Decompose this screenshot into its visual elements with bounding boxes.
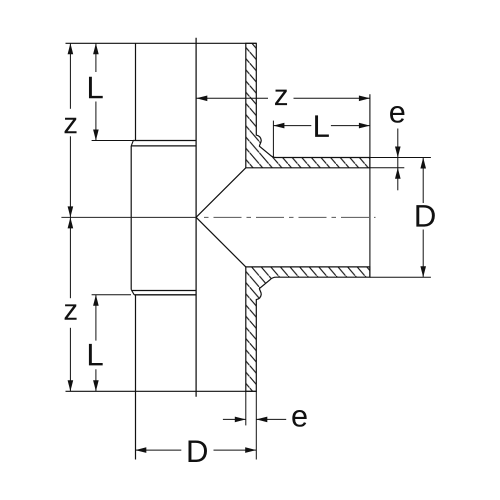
bottom socket step lower line (134, 294, 196, 296)
extension of branch outer top line (370, 157, 431, 159)
bore intersection diagonal lower (196, 217, 246, 267)
socket outer edge top-left (135, 43, 137, 140)
dimension z bottom-left (69, 217, 71, 298)
bottom e extension line inner (245, 391, 247, 425)
vertical axis line (195, 38, 197, 397)
dimension L top-left (95, 43, 97, 72)
body outer edge left (130, 146, 132, 290)
dimension D right (422, 158, 424, 204)
extension of branch outer bottom line (370, 276, 431, 278)
extension line for top L at step (92, 140, 133, 142)
dimension z top-right (196, 97, 268, 99)
centerline horizontal left solid (61, 216, 196, 218)
dimension L bottom-left (95, 295, 97, 341)
dimension L top-right (273, 125, 311, 127)
top socket step lower line (132, 145, 196, 147)
bore intersection diagonal upper (196, 168, 246, 218)
top face line with left extension (66, 42, 257, 44)
dimension D bottom (135, 449, 181, 451)
dimension e bottom (223, 418, 246, 420)
extension line for L top-right (272, 121, 274, 158)
bottom socket step upper line (132, 290, 196, 292)
wall section bottom-right (hatched) (246, 267, 370, 391)
dimension z top-left (69, 43, 71, 109)
extension line for bottom L at step (92, 294, 131, 296)
branch end face with extensions (369, 94, 371, 277)
socket outer edge bottom-left plus D extension (135, 295, 137, 460)
centerline horizontal dash-dot (204, 216, 376, 218)
wall section top-right (hatched) (246, 43, 370, 168)
top socket step upper line (133, 140, 196, 142)
bottom face line with left extension (66, 390, 257, 392)
bottom e and D shared extension line outer (255, 391, 257, 459)
dimension e right (397, 129, 399, 191)
top socket step chamfer (131, 141, 133, 146)
extension of branch inner top line (370, 167, 404, 169)
bottom socket step chamfer (131, 290, 134, 295)
